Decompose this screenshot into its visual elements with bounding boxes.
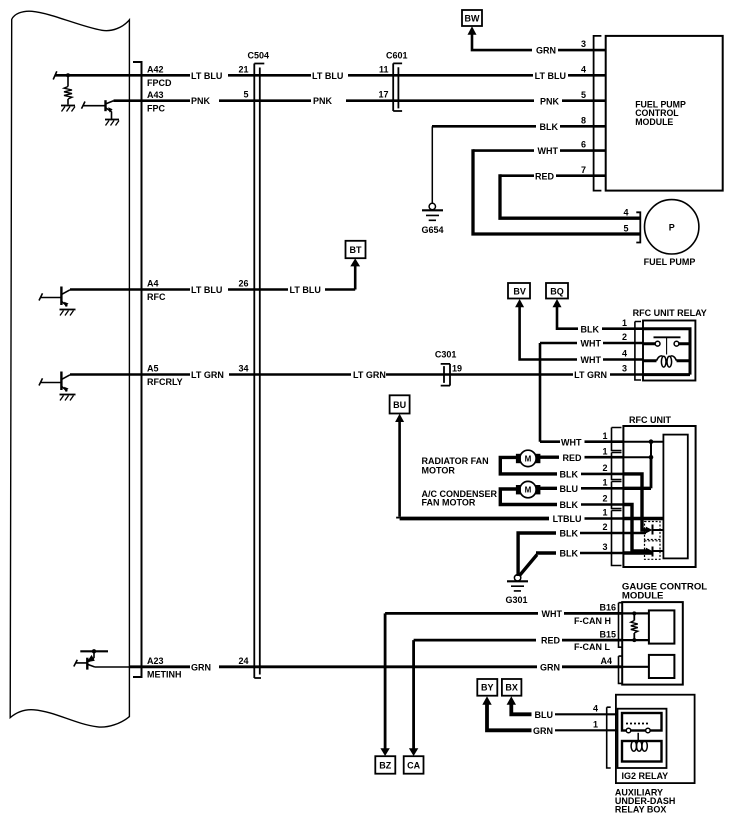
wire LT GRN RFCRLY row (A5): [70, 373, 643, 376]
svg-text:17: 17: [378, 90, 388, 100]
svg-text:LT GRN: LT GRN: [191, 370, 224, 380]
svg-text:BLK: BLK: [581, 324, 600, 334]
connector C301: [441, 364, 450, 386]
svg-text:FUEL PUMP: FUEL PUMP: [644, 257, 696, 267]
svg-text:6: 6: [581, 140, 586, 150]
relay internal wire pin3: [643, 373, 690, 376]
arrow into BV: [515, 299, 524, 307]
IG2 relay coil: [631, 741, 636, 751]
RFC unit box: [623, 426, 695, 567]
svg-text:P: P: [669, 222, 675, 232]
svg-text:2: 2: [622, 332, 627, 342]
svg-text:B16: B16: [599, 603, 616, 613]
svg-text:3: 3: [602, 542, 607, 552]
arrow into CA: [409, 748, 418, 756]
svg-text:A23: A23: [147, 656, 164, 666]
svg-text:IG2 RELAY: IG2 RELAY: [622, 771, 669, 781]
radiator fan motor: [520, 450, 536, 466]
gauge bracket A4: [619, 656, 623, 683]
arrow into BZ: [380, 748, 389, 756]
wire BLK relay pin1 from BQ: [557, 307, 643, 329]
RFC unit relay bracket: [635, 322, 641, 381]
transistor Q4 (METINH): [80, 650, 108, 652]
svg-text:1: 1: [602, 446, 607, 456]
RFC internal BLK wire to T1: [623, 474, 648, 530]
wire LTBLU from BU to RFC unit: [398, 422, 401, 517]
svg-text:BLK: BLK: [560, 470, 579, 480]
relay coil: [643, 359, 690, 362]
svg-text:3: 3: [622, 364, 627, 374]
svg-text:RFC UNIT RELAY: RFC UNIT RELAY: [633, 308, 707, 318]
node: [632, 611, 636, 615]
svg-text:A4: A4: [147, 279, 159, 289]
svg-text:LTBLU: LTBLU: [553, 514, 582, 524]
RFC internal RED wire: [623, 456, 651, 458]
ground (under Q2): [60, 309, 76, 311]
svg-text:LT BLU: LT BLU: [290, 285, 321, 295]
svg-text:BLK: BLK: [560, 549, 579, 559]
wire A42 LT BLU row: [55, 74, 190, 77]
svg-text:21: 21: [238, 64, 248, 74]
gauge inner block 1: [649, 610, 675, 643]
wire LT BLU RFC row (A4): [70, 266, 355, 290]
connector box BY: [477, 679, 497, 696]
svg-text:BZ: BZ: [379, 761, 391, 771]
svg-text:METINH: METINH: [147, 670, 182, 680]
arrow into BU: [395, 414, 404, 422]
ground G301: [514, 575, 520, 581]
svg-text:BLK: BLK: [560, 500, 579, 510]
gauge control module box: [622, 602, 683, 685]
connector C504: [254, 64, 264, 679]
svg-text:4: 4: [593, 704, 598, 714]
svg-text:RED: RED: [535, 171, 555, 181]
svg-text:24: 24: [238, 656, 248, 666]
gauge bracket B16/B15: [619, 603, 623, 648]
wire RED F-CAN L to CA: [414, 640, 623, 749]
IG2 relay link: [637, 733, 639, 741]
node: [632, 638, 636, 642]
svg-text:4: 4: [581, 64, 586, 74]
svg-text:FPCD: FPCD: [147, 78, 172, 88]
RFC unit relay box: [643, 321, 695, 381]
arrow into BQ: [553, 299, 562, 307]
wire BLK module pin 8 to G654: [432, 125, 606, 128]
svg-text:A43: A43: [147, 90, 164, 100]
RFC internal BLK pin2 wire: [623, 532, 646, 534]
svg-text:BT: BT: [350, 245, 362, 255]
svg-text:LT GRN: LT GRN: [574, 370, 607, 380]
svg-text:LT GRN: LT GRN: [353, 370, 386, 380]
module connector bracket: [594, 36, 602, 191]
node: [649, 439, 654, 444]
RFC unit connector brackets: [612, 428, 622, 451]
wire PNK segments: [219, 99, 606, 102]
connector box BQ: [546, 283, 568, 299]
connector box BV: [508, 283, 530, 299]
tick A42: [53, 71, 57, 79]
svg-text:34: 34: [238, 364, 248, 374]
connector box BW: [462, 10, 482, 26]
svg-text:BQ: BQ: [550, 287, 564, 297]
RFC internal LTBLU wire: [623, 517, 663, 521]
svg-text:1: 1: [593, 720, 598, 730]
ECM connector bracket: [133, 62, 142, 677]
relay internal wire pin1: [643, 327, 690, 374]
transistor T2 (fan driver): [645, 541, 661, 560]
IG2 relay contact block: [622, 713, 662, 731]
svg-text:MODULE: MODULE: [635, 117, 673, 127]
svg-text:BLU: BLU: [535, 710, 554, 720]
wire RED radiator fan: [540, 456, 559, 459]
svg-text:BY: BY: [481, 683, 494, 693]
RFC internal vertical: [650, 442, 652, 458]
gauge inner block 2: [649, 655, 675, 678]
IG2 relay coil block: [622, 741, 662, 762]
svg-text:WHT: WHT: [581, 339, 602, 349]
svg-text:FAN MOTOR: FAN MOTOR: [422, 498, 476, 508]
node: [649, 455, 654, 460]
svg-text:LT BLU: LT BLU: [191, 71, 222, 81]
wire WHT F-CAN H to BZ: [385, 613, 622, 748]
svg-text:19: 19: [452, 364, 462, 374]
resistor (pull-up inside ECM): [67, 75, 69, 104]
fuel pump motor: [645, 200, 699, 254]
transistor Q2 (RFC driver): [60, 287, 62, 306]
connector box BX: [502, 679, 522, 696]
svg-text:GRN: GRN: [536, 46, 556, 56]
svg-text:A42: A42: [147, 64, 164, 74]
svg-text:RED: RED: [541, 636, 561, 646]
arrow into BY: [482, 696, 491, 705]
svg-text:PNK: PNK: [313, 96, 333, 106]
svg-text:MOTOR: MOTOR: [422, 466, 456, 476]
svg-text:A5: A5: [147, 364, 159, 374]
svg-text:7: 7: [581, 165, 586, 175]
connector box CA: [404, 756, 424, 774]
connector box BT: [346, 241, 366, 258]
wire BLK radiator fan: [500, 457, 557, 474]
arrow into BW: [468, 26, 477, 35]
transistor Q1 (FPC driver): [104, 100, 106, 111]
svg-text:GRN: GRN: [191, 662, 211, 672]
a/c condenser fan motor: [520, 481, 536, 497]
svg-text:M: M: [525, 486, 532, 495]
svg-text:RED: RED: [562, 453, 582, 463]
svg-text:CA: CA: [407, 761, 420, 771]
wire BLU condenser fan: [540, 487, 557, 490]
svg-text:BX: BX: [505, 683, 518, 693]
svg-text:LT BLU: LT BLU: [191, 285, 222, 295]
RFC internal BLU wire: [623, 487, 651, 490]
connector box BU: [390, 395, 410, 413]
svg-text:GRN: GRN: [540, 662, 560, 672]
wire WHT RFC unit pin1 stub: [585, 440, 624, 443]
IG2 relay box: [618, 709, 667, 768]
svg-text:1: 1: [602, 508, 607, 518]
wire A43 PNK row: [114, 99, 191, 102]
wire WHT module pin 6 to fuel pump 5: [473, 149, 606, 152]
svg-text:2: 2: [602, 494, 607, 504]
wire GRN METINH row: [95, 666, 130, 668]
svg-text:2: 2: [602, 463, 607, 473]
svg-text:RFCRLY: RFCRLY: [147, 377, 183, 387]
fuel pump control module box: [606, 36, 723, 191]
RFC internal BLK wire to T2: [623, 505, 648, 552]
IG2 bracket: [607, 707, 611, 768]
wire A4 row continues after label: [228, 74, 606, 77]
ECM/PCM torn strip: [10, 11, 129, 727]
svg-text:C601: C601: [386, 51, 408, 61]
auxiliary under-dash relay box: [616, 695, 695, 783]
svg-text:4: 4: [623, 207, 628, 217]
svg-text:WHT: WHT: [542, 609, 563, 619]
wire GRN IG2 pin1 from BY: [487, 705, 532, 731]
wire WHT relay pin2 to RFC unit pin1: [540, 343, 643, 442]
svg-text:4: 4: [622, 349, 627, 359]
svg-text:8: 8: [581, 115, 586, 125]
svg-text:BLK: BLK: [540, 122, 559, 132]
RFC internal BLK pin3 wire: [623, 551, 652, 554]
svg-text:RFC: RFC: [147, 292, 166, 302]
svg-text:1: 1: [622, 318, 627, 328]
svg-text:1: 1: [602, 431, 607, 441]
svg-text:GRN: GRN: [533, 726, 553, 736]
svg-text:M: M: [525, 455, 532, 464]
relay contact: [643, 342, 690, 345]
svg-text:5: 5: [581, 90, 586, 100]
connector C601: [393, 63, 402, 111]
arrow into BX: [507, 696, 516, 705]
svg-text:BLU: BLU: [560, 484, 579, 494]
ground (under Q3): [60, 394, 76, 396]
svg-text:G301: G301: [505, 595, 527, 605]
wire GRN to BW / module pin 3: [472, 35, 606, 51]
wire BLU IG2 pin4 from BX: [511, 705, 531, 715]
gauge internal F-CAN wires: [622, 613, 649, 666]
node junction A42: [66, 73, 70, 77]
svg-text:26: 26: [238, 279, 248, 289]
svg-text:3: 3: [581, 39, 586, 49]
RFC unit inner block: [663, 435, 687, 559]
transistor T1 (fan driver): [645, 522, 661, 540]
svg-text:MODULE: MODULE: [622, 590, 664, 601]
svg-text:11: 11: [379, 64, 389, 74]
svg-text:G654: G654: [421, 225, 443, 235]
ground (under Q1): [105, 119, 119, 121]
svg-text:LT BLU: LT BLU: [535, 71, 566, 81]
svg-text:WHT: WHT: [581, 355, 602, 365]
relay armature link: [666, 338, 668, 355]
svg-text:RELAY BOX: RELAY BOX: [615, 805, 667, 815]
svg-text:C504: C504: [248, 51, 270, 61]
svg-text:F-CAN H: F-CAN H: [574, 616, 611, 626]
svg-text:F-CAN L: F-CAN L: [574, 642, 610, 652]
transistor Q3 (RFCRLY driver): [60, 372, 62, 391]
svg-text:BLK: BLK: [560, 529, 579, 539]
svg-text:1: 1: [602, 478, 607, 488]
wire BLK condenser fan: [500, 489, 557, 505]
svg-text:PNK: PNK: [540, 96, 560, 106]
svg-text:5: 5: [623, 223, 628, 233]
svg-text:WHT: WHT: [561, 437, 582, 447]
RFC internal WHT wire: [623, 441, 663, 443]
ground (chassis, under resistor): [61, 105, 75, 107]
svg-text:WHT: WHT: [538, 146, 559, 156]
svg-text:BU: BU: [393, 400, 406, 410]
svg-text:5: 5: [243, 90, 248, 100]
wire BLK G301 to RFC pin3: [520, 553, 556, 575]
svg-text:BW: BW: [465, 14, 480, 24]
svg-text:RFC UNIT: RFC UNIT: [629, 415, 671, 425]
arrow into BT: [350, 258, 360, 266]
wire RED module pin 7 to fuel pump 4: [500, 174, 606, 177]
wire BLK G301 to RFC pin2: [518, 533, 556, 576]
svg-text:PNK: PNK: [191, 96, 211, 106]
fuel pump bracket: [636, 212, 640, 242]
svg-text:BV: BV: [513, 287, 526, 297]
wire WHT relay pin4 from BV: [520, 307, 643, 360]
svg-text:FPC: FPC: [147, 103, 166, 113]
svg-text:C301: C301: [435, 350, 457, 360]
ground G654: [429, 203, 435, 209]
wire LTBLU stub: [585, 517, 624, 520]
svg-text:2: 2: [602, 522, 607, 532]
svg-text:B15: B15: [599, 629, 616, 639]
resistor (CAN terminating): [633, 613, 635, 640]
connector box BZ: [375, 756, 395, 774]
svg-text:LT BLU: LT BLU: [312, 71, 343, 81]
svg-text:RADIATOR FAN: RADIATOR FAN: [422, 456, 489, 466]
svg-text:A4: A4: [600, 656, 612, 666]
